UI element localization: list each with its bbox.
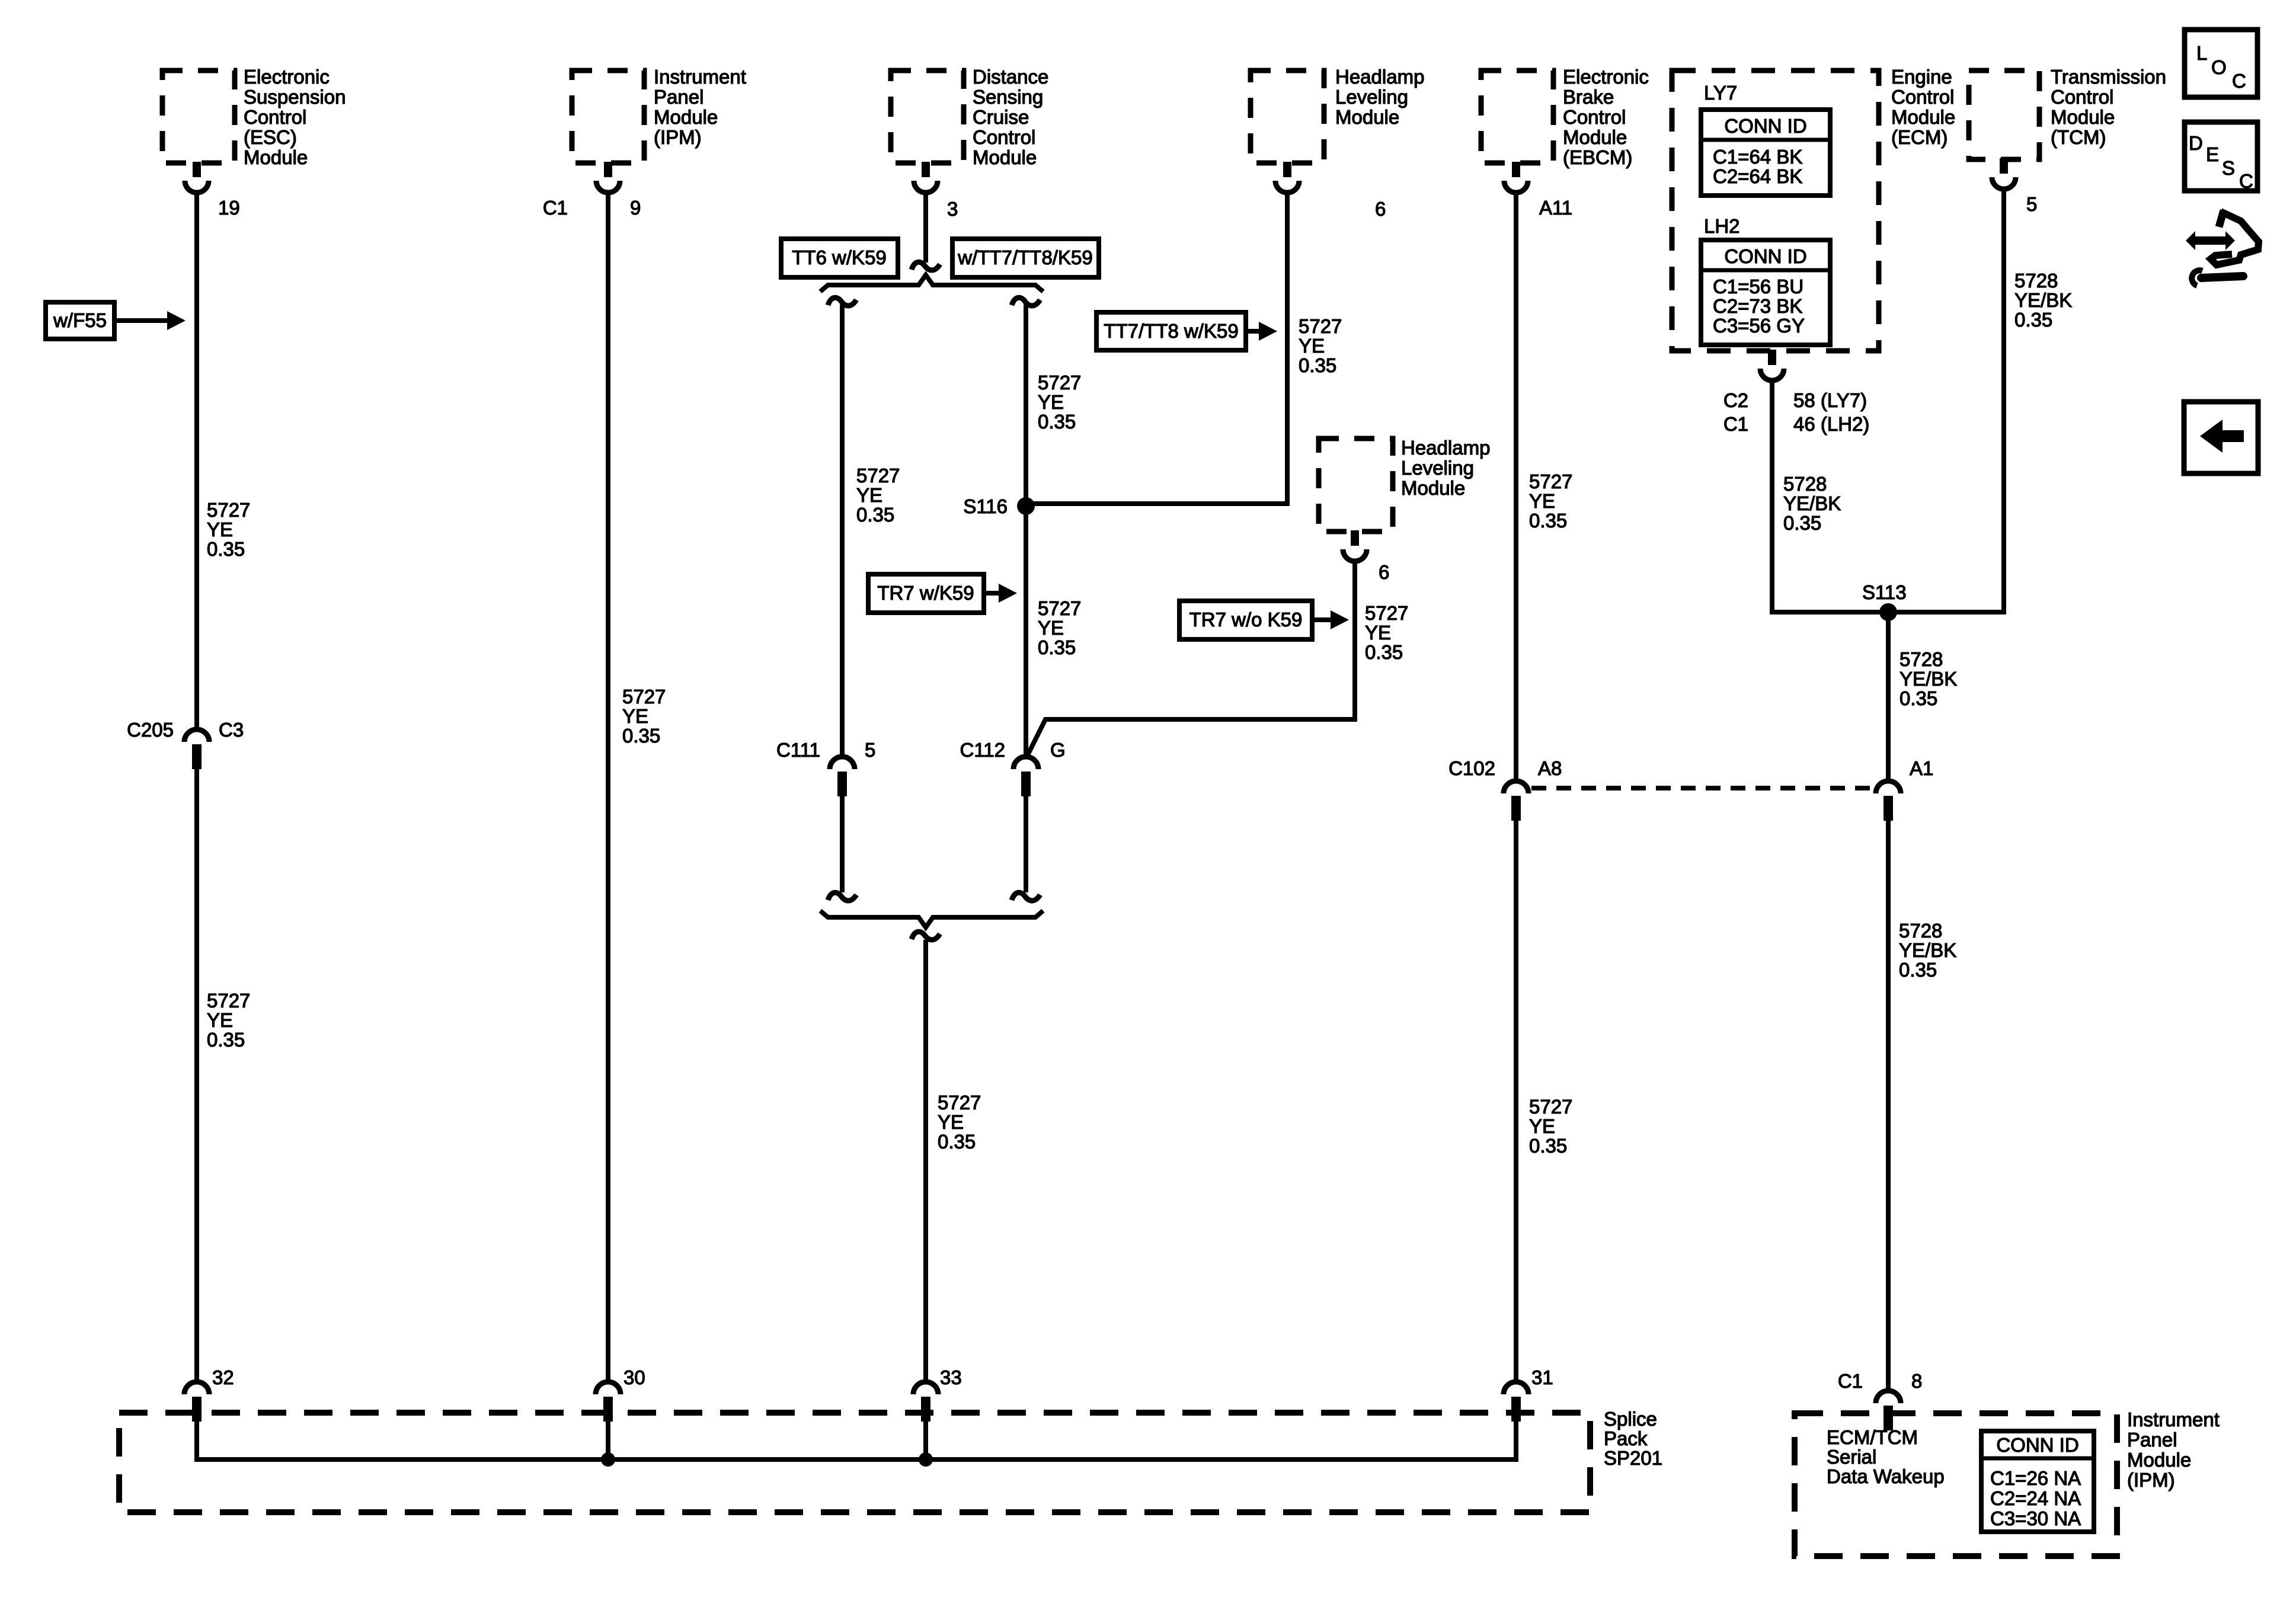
option box TR7 w/K59	[868, 574, 984, 613]
svg-text:YE/BK: YE/BK	[1900, 668, 1957, 690]
wire: ECM connector to S113 to TCM pin5	[1772, 189, 2004, 612]
icon box back arrow	[2184, 402, 2258, 473]
svg-text:w/TT7/TT8/K59: w/TT7/TT8/K59	[957, 247, 1092, 268]
wire: C205 to splice pin 32	[194, 769, 199, 1382]
svg-text:Headlamp: Headlamp	[1401, 437, 1490, 459]
option box w/F55	[46, 302, 114, 339]
svg-text:Electronic: Electronic	[1563, 66, 1649, 88]
svg-text:C: C	[2239, 170, 2253, 192]
wire: EBCM pinA11 to C102	[1514, 194, 1518, 781]
svg-text:Module: Module	[1401, 477, 1465, 499]
wire: S116 to C112	[1024, 506, 1028, 757]
splice bus wire	[197, 1457, 1516, 1462]
splice pack SP201 dashed box	[119, 1413, 1590, 1512]
wire: C102 to splice pin 31	[1514, 821, 1518, 1382]
svg-text:A1: A1	[1910, 757, 1933, 779]
svg-text:Engine: Engine	[1891, 66, 1952, 88]
module: Instrument Panel Module (IPM) top	[572, 71, 644, 163]
option box TR7 w/o K59	[1179, 601, 1312, 639]
break squiggle top of C111 branch	[828, 297, 856, 306]
svg-text:(IPM): (IPM)	[2127, 1469, 2175, 1491]
svg-text:SP201: SP201	[1604, 1447, 1662, 1469]
wire below C111	[840, 796, 845, 892]
icon: vehicle with double arrow and wrench	[2186, 231, 2235, 250]
svg-text:TR7 w/o K59: TR7 w/o K59	[1189, 609, 1303, 630]
connector pin 19 at ESC module	[193, 162, 201, 177]
module: Engine Control Module (ECM) dashed box	[1672, 71, 1879, 351]
arrow from TR7 w/K59 to wire	[984, 591, 1000, 596]
connector pin A11 at EBCM	[1512, 162, 1520, 177]
module: Headlamp Leveling Module (top)	[1251, 71, 1324, 163]
break squiggle bottom of C111 branch	[828, 892, 856, 901]
svg-text:0.35: 0.35	[1299, 354, 1336, 376]
icon box DESC	[2185, 122, 2257, 191]
svg-text:0.35: 0.35	[2014, 309, 2052, 331]
svg-text:Instrument: Instrument	[654, 66, 746, 88]
svg-text:LY7: LY7	[1704, 82, 1737, 104]
splice S116 dot	[1017, 497, 1035, 515]
svg-text:CONN ID: CONN ID	[1724, 115, 1806, 137]
svg-text:TR7 w/K59: TR7 w/K59	[877, 582, 974, 604]
svg-text:5728: 5728	[1783, 473, 1827, 495]
svg-text:5727: 5727	[622, 686, 666, 708]
svg-text:(ECM): (ECM)	[1891, 126, 1948, 148]
table CONN ID (LY7)	[1701, 110, 1830, 196]
module: ECM/TCM Serial Data Wakeup (IPM) dashed box	[1795, 1413, 2117, 1556]
option box w/TT7/TT8/K59	[952, 239, 1099, 277]
svg-text:C1: C1	[543, 197, 568, 219]
bus junction dot at 30	[601, 1452, 615, 1467]
inline connector C112 pin G	[1013, 757, 1038, 769]
svg-text:TT6 w/K59: TT6 w/K59	[792, 247, 887, 268]
connector pin C2/C1 58/46 at ECM	[1768, 350, 1776, 365]
svg-text:0.35: 0.35	[207, 538, 245, 560]
svg-text:YE: YE	[938, 1111, 964, 1133]
wire into splice pack from 30	[606, 1422, 610, 1459]
svg-text:LH2: LH2	[1704, 215, 1740, 237]
svg-text:0.35: 0.35	[207, 1029, 245, 1051]
svg-text:C1=64 BK: C1=64 BK	[1713, 146, 1802, 168]
svg-text:A11: A11	[1539, 197, 1572, 219]
svg-text:0.35: 0.35	[622, 725, 660, 747]
svg-text:0.35: 0.35	[1529, 1135, 1567, 1157]
splice connector 32	[184, 1382, 209, 1394]
svg-text:L: L	[2196, 42, 2207, 64]
bus junction dot at 33	[919, 1452, 933, 1467]
module: Electronic Suspension Control (ESC)	[162, 71, 235, 163]
svg-text:Cruise: Cruise	[973, 106, 1029, 128]
svg-text:YE: YE	[1365, 622, 1391, 644]
svg-text:Instrument: Instrument	[2127, 1409, 2220, 1430]
svg-text:Leveling: Leveling	[1401, 457, 1474, 479]
svg-text:5727: 5727	[1365, 602, 1408, 624]
svg-text:YE: YE	[207, 1009, 233, 1031]
splice connector 30	[596, 1382, 621, 1394]
svg-text:C1: C1	[1838, 1370, 1863, 1392]
svg-text:58 (LY7): 58 (LY7)	[1793, 389, 1867, 411]
svg-text:0.35: 0.35	[1038, 636, 1076, 658]
svg-text:Serial: Serial	[1827, 1446, 1876, 1468]
svg-text:Leveling: Leveling	[1335, 86, 1408, 108]
svg-text:S116: S116	[963, 495, 1008, 517]
svg-text:5727: 5727	[1529, 1096, 1572, 1118]
svg-text:Module: Module	[973, 146, 1037, 168]
svg-text:Module: Module	[1563, 126, 1627, 148]
module: Transmission Control Module (TCM)	[1969, 71, 2039, 159]
svg-text:46 (LH2): 46 (LH2)	[1793, 413, 1869, 435]
svg-text:YE: YE	[1038, 391, 1064, 413]
svg-text:Transmission: Transmission	[2051, 66, 2166, 88]
svg-text:3: 3	[947, 198, 958, 220]
svg-text:YE: YE	[207, 518, 233, 540]
svg-text:S: S	[2222, 157, 2235, 179]
svg-text:C1=56 BU: C1=56 BU	[1713, 276, 1803, 297]
svg-text:C2=73 BK: C2=73 BK	[1713, 295, 1802, 317]
inline connector C205 C3	[184, 729, 209, 742]
svg-text:5727: 5727	[1299, 315, 1342, 337]
svg-text:C2: C2	[1723, 389, 1748, 411]
svg-text:YE/BK: YE/BK	[1783, 492, 1841, 514]
svg-text:ECM/TCM: ECM/TCM	[1827, 1426, 1918, 1448]
svg-text:(TCM): (TCM)	[2051, 126, 2106, 148]
svg-text:6: 6	[1375, 198, 1386, 220]
svg-text:C3=56 GY: C3=56 GY	[1713, 315, 1805, 337]
svg-text:31: 31	[1531, 1366, 1553, 1388]
table CONN ID (LH2)	[1701, 240, 1830, 345]
svg-text:5727: 5727	[207, 499, 250, 521]
wire into splice pack from 32	[194, 1422, 199, 1462]
arrow from TT7/TT8 w/K59 to wire	[1246, 329, 1261, 334]
svg-text:5728: 5728	[2014, 270, 2058, 292]
svg-text:YE: YE	[1529, 1115, 1555, 1137]
wire: headlamp(top) pin6 down and left to S116	[1026, 194, 1287, 504]
svg-text:Suspension: Suspension	[244, 86, 346, 108]
svg-text:C: C	[2232, 70, 2246, 92]
wire: IPM pin9 to splice pin 30	[606, 194, 610, 1382]
break squiggle below merge brace	[912, 932, 940, 940]
brace (merge)	[820, 911, 1043, 927]
table CONN ID (IPM)	[1981, 1431, 2094, 1532]
svg-text:5: 5	[2026, 193, 2037, 215]
svg-text:Control: Control	[244, 106, 306, 128]
arrow from w/F55 to wire	[114, 318, 169, 323]
module: Distance Sensing Cruise Control Module	[891, 71, 964, 163]
svg-text:(IPM): (IPM)	[654, 126, 702, 148]
svg-text:Data Wakeup: Data Wakeup	[1827, 1465, 1945, 1487]
svg-text:0.35: 0.35	[1529, 510, 1567, 532]
wire: ESC pin19 to C205	[194, 194, 199, 729]
svg-text:Module: Module	[2127, 1449, 2191, 1471]
svg-text:YE: YE	[1529, 490, 1555, 512]
wire into splice pack from 33	[923, 1422, 928, 1459]
svg-text:19: 19	[218, 197, 240, 219]
splice connector 33	[913, 1382, 938, 1394]
wire: branch to S116	[1024, 305, 1028, 506]
svg-text:E: E	[2206, 143, 2219, 165]
svg-text:5: 5	[865, 739, 875, 761]
svg-text:Module: Module	[654, 106, 718, 128]
svg-text:32: 32	[212, 1366, 234, 1388]
svg-text:0.35: 0.35	[1038, 411, 1076, 433]
svg-text:C3: C3	[219, 719, 244, 741]
connector pin 6 at headlamp leveling module	[1283, 162, 1291, 177]
connector pin C1 9 at IPM	[604, 162, 612, 177]
svg-text:w/F55: w/F55	[53, 309, 107, 331]
svg-text:C205: C205	[127, 719, 174, 741]
svg-text:G: G	[1050, 739, 1066, 761]
svg-text:C1: C1	[1723, 413, 1748, 435]
svg-text:5727: 5727	[1529, 470, 1572, 492]
svg-text:0.35: 0.35	[1899, 959, 1937, 981]
svg-text:Module: Module	[1335, 106, 1399, 128]
svg-text:A8: A8	[1538, 757, 1562, 779]
svg-text:5727: 5727	[938, 1092, 981, 1113]
module: Electronic Brake Control Module (EBCM)	[1481, 71, 1553, 163]
inline connector A1	[1876, 781, 1901, 793]
svg-text:C111: C111	[776, 739, 820, 761]
svg-text:0.35: 0.35	[1783, 512, 1821, 534]
svg-text:0.35: 0.35	[1900, 687, 1937, 709]
svg-text:Distance: Distance	[973, 66, 1048, 88]
svg-text:8: 8	[1911, 1370, 1922, 1392]
svg-text:YE: YE	[1299, 335, 1325, 357]
svg-text:Control: Control	[2051, 86, 2113, 108]
wire below C112	[1024, 796, 1028, 892]
svg-text:YE/BK: YE/BK	[1899, 939, 1956, 961]
splice S113 dot	[1879, 603, 1897, 621]
option box TT6 w/K59	[781, 239, 898, 277]
svg-text:0.35: 0.35	[1365, 641, 1403, 663]
icon box LOC	[2185, 30, 2257, 97]
connector pin 6 at mid headlamp module	[1351, 530, 1359, 546]
splice connector 31	[1504, 1382, 1528, 1394]
break squiggle top of C112 branch	[1012, 297, 1040, 306]
svg-text:30: 30	[623, 1366, 645, 1388]
wire: DSCC pin3 down to break	[923, 194, 928, 263]
wire: A1 to IPM C1 pin8	[1886, 821, 1891, 1391]
svg-text:YE: YE	[856, 484, 882, 506]
svg-text:O: O	[2211, 56, 2227, 78]
svg-text:5728: 5728	[1900, 648, 1943, 670]
svg-text:Pack: Pack	[1604, 1427, 1648, 1449]
svg-text:Module: Module	[2051, 106, 2115, 128]
inline connector C102 pin A8	[1504, 781, 1528, 793]
svg-text:5727: 5727	[1038, 372, 1081, 393]
connector pin 5 at TCM	[2000, 158, 2008, 174]
dashed wire A8 to A1	[1531, 786, 1873, 790]
svg-text:YE/BK: YE/BK	[2014, 289, 2072, 311]
svg-text:0.35: 0.35	[856, 504, 894, 526]
svg-text:6: 6	[1379, 561, 1389, 583]
wire into splice pack from 31	[1514, 1422, 1518, 1462]
svg-text:Panel: Panel	[2127, 1429, 2177, 1451]
svg-text:Module: Module	[1891, 106, 1955, 128]
break squiggle bottom of C112 branch	[1012, 892, 1040, 901]
option box TT7/TT8 w/K59	[1096, 312, 1246, 350]
svg-text:5727: 5727	[1038, 597, 1081, 619]
svg-text:C1=26 NA: C1=26 NA	[1990, 1467, 2081, 1489]
svg-text:Splice: Splice	[1604, 1408, 1657, 1430]
inline connector C111 pin5	[830, 757, 855, 769]
svg-text:C102: C102	[1448, 757, 1495, 779]
inline connector C1 pin8 at IPM wakeup	[1876, 1391, 1901, 1403]
svg-text:C112: C112	[960, 739, 1005, 761]
svg-text:S113: S113	[1862, 581, 1907, 603]
svg-text:Control: Control	[973, 126, 1035, 148]
svg-text:Brake: Brake	[1563, 86, 1614, 108]
svg-text:Control: Control	[1891, 86, 1954, 108]
svg-text:C2=24 NA: C2=24 NA	[1990, 1487, 2081, 1509]
svg-text:C2=64 BK: C2=64 BK	[1713, 165, 1802, 187]
svg-text:YE: YE	[622, 705, 648, 727]
arrow from TR7 w/o K59 to wire	[1312, 617, 1332, 622]
svg-text:TT7/TT8 w/K59: TT7/TT8 w/K59	[1104, 320, 1238, 342]
svg-text:Panel: Panel	[654, 86, 703, 108]
break squiggle under pin 3	[912, 262, 940, 270]
svg-text:Headlamp: Headlamp	[1335, 66, 1424, 88]
svg-text:CONN ID: CONN ID	[1724, 245, 1806, 267]
svg-text:Module: Module	[244, 146, 308, 168]
brace (options split)	[820, 275, 1043, 292]
svg-text:5727: 5727	[856, 465, 900, 486]
svg-text:Sensing: Sensing	[973, 86, 1043, 108]
wire: mid headlamp pin6 to C112 (elbow + diagonal)	[1027, 561, 1355, 756]
wire: merge to splice pin 33	[923, 940, 928, 1382]
svg-text:5728: 5728	[1899, 920, 1942, 942]
svg-text:D: D	[2189, 132, 2203, 154]
svg-text:9: 9	[630, 197, 641, 219]
module: Headlamp Leveling Module (mid)	[1319, 438, 1393, 532]
connector pin 3 at DSCC module	[922, 162, 930, 177]
wire: S113 to A1	[1886, 612, 1891, 781]
svg-text:(ESC): (ESC)	[244, 126, 297, 148]
svg-text:33: 33	[940, 1366, 962, 1388]
svg-text:0.35: 0.35	[938, 1131, 976, 1153]
svg-text:CONN ID: CONN ID	[1996, 1434, 2078, 1456]
svg-text:YE: YE	[1038, 617, 1064, 639]
svg-text:(EBCM): (EBCM)	[1563, 146, 1632, 168]
wire: branch to C111	[840, 305, 845, 757]
svg-text:C3=30 NA: C3=30 NA	[1990, 1507, 2081, 1529]
svg-text:Electronic: Electronic	[244, 66, 330, 88]
svg-text:Control: Control	[1563, 106, 1626, 128]
svg-text:5727: 5727	[207, 990, 250, 1012]
